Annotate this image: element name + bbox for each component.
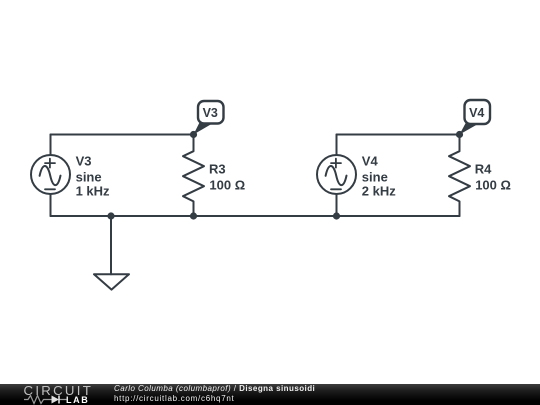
svg-text:R4: R4 bbox=[475, 161, 492, 176]
svg-text:V4: V4 bbox=[362, 153, 379, 168]
svg-text:sine: sine bbox=[76, 170, 102, 185]
svg-text:2 kHz: 2 kHz bbox=[362, 184, 396, 199]
svg-text:100 Ω: 100 Ω bbox=[209, 177, 245, 192]
svg-text:sine: sine bbox=[362, 170, 388, 185]
svg-text:V3: V3 bbox=[76, 153, 92, 168]
svg-text:100 Ω: 100 Ω bbox=[475, 177, 511, 192]
svg-text:R3: R3 bbox=[209, 161, 226, 176]
svg-text:1 kHz: 1 kHz bbox=[76, 184, 110, 199]
svg-text:V4: V4 bbox=[469, 106, 484, 120]
svg-text:V3: V3 bbox=[203, 106, 218, 120]
